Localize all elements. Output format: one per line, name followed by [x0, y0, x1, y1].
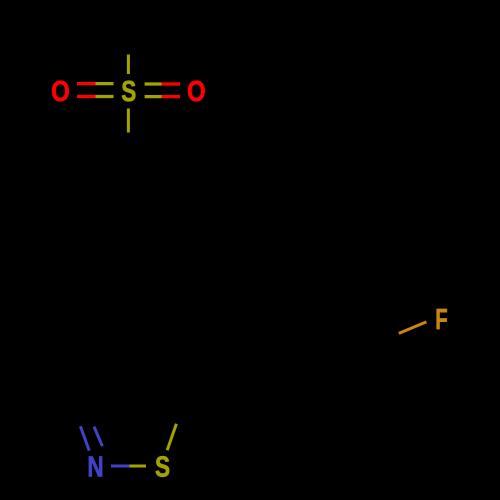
bond S1-C(aryl ipso), sulfur half going down	[127, 109, 130, 133]
bond S1=O1 lower line, O half (red)	[77, 95, 96, 98]
bond N1-S2, S half (olive)	[130, 465, 147, 468]
bond C-F, fluorine half (gold)	[399, 322, 427, 334]
bond S1=O1 upper line, O half (red)	[77, 82, 96, 85]
svg-text:S: S	[155, 450, 170, 483]
svg-text:F: F	[435, 303, 447, 335]
bond C3=N1 double, outer line, N half (blue)	[80, 426, 89, 450]
svg-text:S: S	[121, 74, 136, 107]
bond C3=N1 double, inner line, N half (blue)	[94, 427, 102, 447]
bond S1=O2 lower line, S half (olive)	[145, 95, 162, 98]
svg-text:O: O	[51, 75, 70, 108]
bond S1=O2 upper line, O half (red)	[162, 82, 181, 85]
bond S1=O1 lower line, S half (olive)	[96, 95, 114, 98]
bond S1=O2 upper line, S half (olive)	[145, 82, 162, 85]
bond N1-S2, N half (blue)	[111, 465, 130, 468]
bond S1=O1 upper line, S half (olive)	[96, 82, 114, 85]
bond S2-C5, S half (olive)	[167, 424, 176, 450]
svg-text:N: N	[87, 452, 103, 483]
svg-text:O: O	[187, 75, 206, 108]
bond S1=O2 lower line, O half (red)	[162, 95, 181, 98]
bond CH3-S1 (sulfur half, methylsulfonyl methyl)	[127, 55, 130, 75]
